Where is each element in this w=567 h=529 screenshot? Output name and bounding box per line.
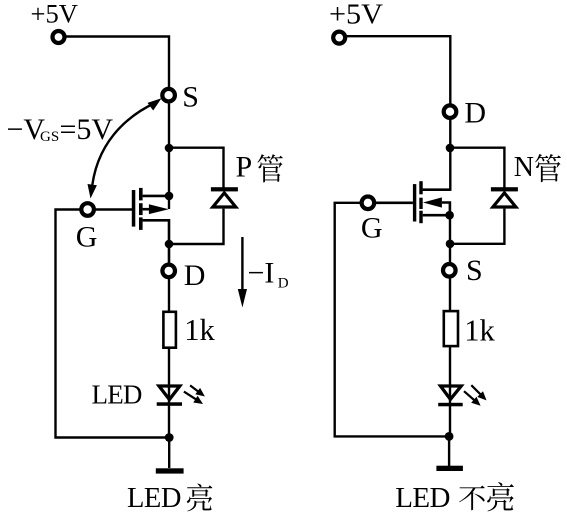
terminal D (left) bbox=[162, 265, 175, 278]
wire: resistor to LED to bottom junction (right) bbox=[449, 346, 451, 436]
node S label bbox=[182, 80, 199, 113]
svg-text:N: N bbox=[514, 152, 534, 183]
node D label (left) bbox=[184, 259, 206, 292]
svg-text:S: S bbox=[466, 254, 483, 287]
node G label (right) bbox=[361, 212, 383, 245]
transistor Q1 source lead (top) bbox=[143, 195, 169, 198]
label P 管 (P-channel tube) bbox=[236, 151, 283, 184]
terminal circle +5V (right) bbox=[333, 32, 345, 44]
transistor Q2 channel segments bbox=[419, 181, 422, 194]
svg-text:P: P bbox=[236, 151, 253, 184]
diode D1 cathode bar (body diode of P-MOSFET) bbox=[211, 187, 238, 191]
terminal G (left) bbox=[81, 203, 94, 216]
ground (right) bbox=[436, 466, 463, 471]
node G label (left) bbox=[76, 220, 98, 253]
resistor R1 1k (left) bbox=[163, 312, 176, 348]
transistor Q2 drain lead (top) bbox=[423, 188, 451, 191]
wire: Q1 body tie vertical bbox=[168, 196, 170, 209]
wire: S terminal down to MOSFET source junction bbox=[168, 104, 170, 197]
node E: junction dot D-to-diode (right) bbox=[446, 144, 455, 153]
transistor Q1 body arrow (points right, P-channel) bbox=[143, 208, 152, 211]
svg-text:G: G bbox=[76, 220, 98, 253]
label LED (left symbol label) bbox=[92, 379, 142, 409]
LED LED2 triangle (right) bbox=[441, 386, 462, 399]
transistor Q1 gate lead wire bbox=[95, 208, 132, 211]
label 1k (left) bbox=[184, 313, 215, 347]
node +5V label (left) bbox=[31, 0, 79, 28]
node A: junction dot S-to-diode (left) bbox=[165, 144, 174, 153]
svg-text:D: D bbox=[278, 275, 289, 291]
transistor Q2 gate bar bbox=[413, 184, 416, 221]
svg-text:=5V: =5V bbox=[60, 113, 114, 146]
terminal G (right) bbox=[362, 197, 375, 210]
svg-text:−I: −I bbox=[248, 256, 275, 289]
wire: feedback loop G to bottom node (left) bbox=[56, 210, 166, 438]
wire: left +5V terminal to top corner and down to S bbox=[59, 37, 170, 88]
svg-text:D: D bbox=[184, 259, 206, 292]
svg-text:+5V: +5V bbox=[329, 0, 383, 30]
LED LED2 cathode bar bbox=[438, 403, 463, 407]
LED2 light emission arrows bbox=[464, 385, 487, 406]
label N管 (N-channel tube) bbox=[514, 152, 561, 183]
node B: junction dot diode-to-drain (left) bbox=[165, 240, 174, 249]
terminal S (right) bbox=[443, 264, 456, 277]
ground (left) bbox=[156, 468, 184, 473]
wire: feedback loop G to bottom node (right) bbox=[335, 203, 445, 437]
LED1 light emission arrows bbox=[184, 385, 205, 404]
svg-text:D: D bbox=[464, 97, 486, 130]
diode D2 triangle bbox=[493, 193, 516, 207]
node S label (right) bbox=[466, 254, 483, 287]
transistor Q1 drain lead (bottom) bbox=[143, 220, 169, 263]
label 1k (right) bbox=[464, 314, 495, 348]
node H: bottom junction dot (right) bbox=[445, 432, 454, 441]
diode D2 cathode bar (body diode of N-MOSFET) bbox=[491, 187, 518, 191]
resistor R2 1k (right) bbox=[444, 311, 458, 346]
wire: D terminal to resistor bbox=[168, 279, 170, 311]
node F: junction dot diode-to-source (right) bbox=[446, 240, 455, 249]
terminal S (left) bbox=[162, 89, 175, 102]
wire: D terminal down to Q2 drain corner bbox=[423, 120, 451, 190]
wire: junction to ground (right) bbox=[448, 436, 450, 466]
wire: S terminal to resistor bbox=[449, 278, 451, 310]
transistor Q2: gate lead wire bbox=[375, 202, 413, 205]
caption LED 不亮 bbox=[395, 482, 514, 514]
svg-text:1k: 1k bbox=[464, 314, 495, 348]
svg-text:G: G bbox=[361, 212, 383, 245]
transistor Q1 gate bar bbox=[132, 190, 136, 227]
wire: right +5V terminal to corner down to D bbox=[339, 36, 450, 103]
wire: junction to ground (left) bbox=[168, 438, 170, 469]
svg-text:+5V: +5V bbox=[31, 0, 79, 28]
caption LED 亮 bbox=[127, 483, 212, 514]
wire: resistor to LED to bottom junction bbox=[168, 349, 170, 438]
label -VGS=5V bbox=[7, 113, 114, 146]
diode D1 triangle bbox=[213, 193, 236, 207]
terminal D (right) bbox=[444, 105, 457, 118]
svg-text:GS: GS bbox=[40, 129, 59, 145]
svg-text:1k: 1k bbox=[184, 313, 215, 347]
LED LED1 cathode bar bbox=[157, 402, 182, 406]
transistor Q2 body arrow (points left, N-channel) bbox=[423, 197, 442, 207]
svg-text:LED: LED bbox=[127, 483, 181, 514]
transistor Q1 channel segments bbox=[139, 188, 143, 201]
svg-text:S: S bbox=[182, 80, 199, 113]
wire: Q2 source down to S terminal bbox=[449, 215, 451, 262]
node: source tie dot Q2 bbox=[445, 211, 454, 220]
label -ID current annotation bbox=[238, 237, 289, 308]
node D label (right) bbox=[464, 97, 486, 130]
LED LED1 triangle (left) bbox=[159, 386, 180, 400]
annotation curved arrow G to S bbox=[88, 98, 162, 198]
wire: body-diode branch (left), S junction right, down, back to drain junction bbox=[169, 148, 224, 244]
node +5V label (right) bbox=[329, 0, 383, 30]
transistor Q2 source lead (bottom) bbox=[423, 214, 450, 217]
svg-text:LED: LED bbox=[92, 379, 142, 409]
node C: bottom junction dot (left) bbox=[165, 433, 174, 442]
svg-text:LED: LED bbox=[395, 482, 450, 514]
node: source tie dot Q1 bbox=[165, 192, 174, 201]
terminal circle +5V (left) bbox=[53, 31, 65, 43]
wire: body-diode branch (right) bbox=[450, 148, 504, 244]
